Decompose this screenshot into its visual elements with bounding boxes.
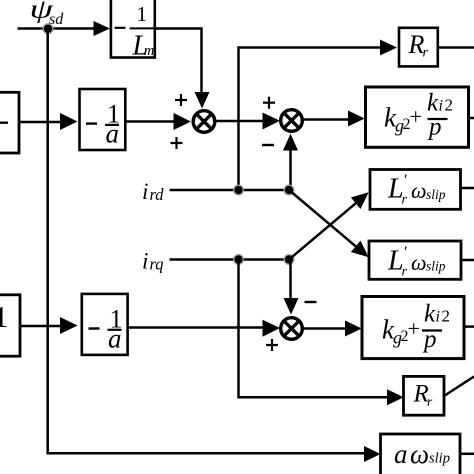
- label plus above S2: [263, 97, 275, 109]
- svg-text:slip: slip: [426, 259, 446, 274]
- label plus below-left of S3: [266, 339, 278, 351]
- wire -1/Lm output to summing junction S1: [155, 29, 202, 94]
- block kg2+ki2/p top: [366, 87, 469, 147]
- block -1/a upper: [80, 89, 126, 150]
- svg-text:p: p: [422, 326, 437, 353]
- label psi_sd: [30, 0, 65, 28]
- wire S3 output to PI block bottom: [302, 327, 346, 330]
- block -1/Lm: [111, 0, 155, 61]
- arrow into block -1/Lm: [94, 21, 111, 36]
- wire PI bottom output tick: [464, 325, 474, 328]
- wire i_rd cross-coupling diagonal to lower Lr block: [289, 190, 356, 246]
- block a w_slip: [381, 434, 461, 474]
- wire Rr bottom diagonal output: [444, 377, 474, 397]
- block Lr' w_slip lower: [369, 241, 461, 279]
- node i_rq junction dot 2: [284, 255, 294, 265]
- block cut-left lower (1): [0, 295, 20, 356]
- svg-text:′: ′: [403, 244, 407, 261]
- arrow into Rr top: [380, 40, 397, 56]
- block kg2+ki2/p bottom: [362, 297, 464, 359]
- svg-text:r: r: [402, 264, 408, 279]
- wire upper Lr output tick: [461, 187, 474, 190]
- wire i_rq junction down into S3: [289, 260, 292, 300]
- node i_rd junction dot 1: [234, 185, 244, 195]
- label minus right of S3 input: [305, 301, 317, 303]
- wire i_rq: [170, 258, 290, 261]
- wire psi_sd input: [18, 27, 96, 30]
- svg-text:+: +: [408, 316, 420, 341]
- label minus below S2: [262, 144, 274, 146]
- arrow into -1/a upper: [60, 113, 78, 130]
- wire psi_sd vertical down to bottom row: [48, 29, 49, 454]
- wire S2 feedback vertical from i_rd junction: [289, 149, 292, 190]
- arrow into upper Lr block: [351, 192, 369, 209]
- arrow into S2 from left: [263, 113, 281, 130]
- svg-text:k: k: [427, 90, 439, 117]
- block -1/a lower: [82, 294, 128, 355]
- arrow up into S2 bottom: [283, 134, 298, 151]
- svg-text:k: k: [424, 301, 436, 328]
- wire cut block to -1/a lower: [20, 325, 62, 328]
- wire i_rd junction up and to Rr top: [239, 48, 382, 191]
- wire cut block to -1/a upper: [19, 121, 62, 124]
- svg-text:i: i: [436, 309, 440, 326]
- wire S1 to S2: [215, 120, 264, 123]
- svg-text:2: 2: [445, 96, 454, 115]
- label plus above S1: [175, 94, 187, 106]
- arrow into PI block top: [348, 111, 365, 127]
- svg-text:r: r: [423, 46, 429, 61]
- summing junction S1: [193, 111, 215, 133]
- wire PI top output tick: [469, 117, 474, 120]
- wire a w_slip output tick: [460, 453, 474, 456]
- svg-text:m: m: [144, 43, 154, 59]
- wire lower Lr output tick: [461, 259, 474, 262]
- svg-text:p: p: [427, 114, 442, 141]
- svg-text:a: a: [106, 119, 120, 149]
- wire bottom row to a w_slip block: [48, 452, 366, 455]
- arrow into S1 from left: [174, 113, 192, 130]
- block Rr bottom: [404, 376, 445, 415]
- wire i_rd: [170, 189, 290, 192]
- summing junction S3: [281, 318, 303, 340]
- svg-text:′: ′: [403, 172, 407, 189]
- arrow into a w_slip: [364, 446, 381, 462]
- label i_rq: [142, 249, 164, 274]
- label plus below S1: [171, 137, 183, 149]
- svg-text:ω: ω: [411, 250, 427, 275]
- wire Rr top output: [438, 46, 474, 49]
- svg-text:+: +: [410, 104, 422, 129]
- svg-text:1: 1: [137, 2, 148, 26]
- arrow into Rr bottom: [387, 389, 404, 405]
- arrow down into S1: [195, 92, 210, 109]
- svg-text:2: 2: [442, 307, 451, 326]
- wire -1/a lower output to S3: [128, 326, 264, 329]
- summing junction S2: [281, 110, 303, 132]
- svg-text:i: i: [142, 249, 148, 274]
- node psi_sd junction dot: [43, 24, 53, 34]
- wire S2 output to PI block top: [302, 118, 349, 121]
- block cut-left upper (minus): [0, 92, 19, 153]
- svg-text:rd: rd: [150, 185, 165, 204]
- wire -1/a upper output to S1: [125, 120, 174, 123]
- svg-text:slip: slip: [429, 451, 450, 467]
- svg-text:ω: ω: [410, 439, 429, 469]
- arrow into S3 from left: [263, 320, 281, 337]
- svg-text:rq: rq: [150, 255, 164, 274]
- wire i_rq junction down to Rr bottom: [239, 260, 389, 398]
- svg-text:slip: slip: [426, 187, 446, 202]
- arrow into lower Lr block: [351, 241, 369, 258]
- arrow into -1/a lower: [60, 317, 78, 334]
- svg-text:a: a: [394, 439, 408, 469]
- svg-text:i: i: [142, 179, 148, 204]
- svg-text:r: r: [427, 394, 433, 409]
- wire i_rq cross-coupling diagonal to upper Lr block: [289, 203, 356, 259]
- node i_rq junction dot 1: [234, 255, 244, 265]
- arrow down into S3 top: [284, 298, 299, 315]
- arrow into PI block bottom: [345, 321, 362, 337]
- svg-text:r: r: [402, 193, 408, 208]
- svg-text:ω: ω: [411, 178, 427, 203]
- label i_rd: [142, 179, 164, 204]
- svg-text:a: a: [108, 323, 122, 353]
- svg-text:1: 1: [0, 299, 9, 334]
- node i_rd junction dot 2: [284, 185, 294, 195]
- svg-text:i: i: [439, 98, 443, 115]
- block Rr top: [399, 28, 438, 67]
- block Lr' w_slip upper: [370, 170, 461, 210]
